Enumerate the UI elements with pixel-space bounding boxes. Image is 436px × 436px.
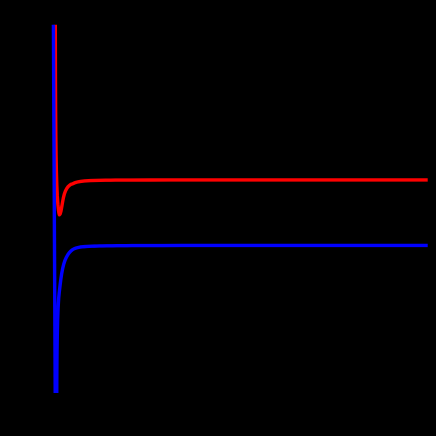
- blue vertical asymptote connector line: [53, 25, 55, 393]
- blue curve rising branch to horizontal asymptote y~245: [57, 245, 428, 393]
- red curve: steep branch at vertical asymptote, dip minimum near (59,215), horizontal asymptote y~180: [55, 25, 427, 215]
